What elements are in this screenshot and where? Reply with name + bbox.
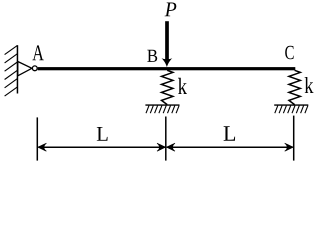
ground line under spring C xyxy=(274,104,308,106)
ground line under spring B xyxy=(145,104,179,106)
dimension line A-B xyxy=(39,146,165,148)
wall hatching at A xyxy=(5,45,18,96)
dimension arrowhead at C xyxy=(285,143,294,151)
node label C xyxy=(285,46,293,59)
ground hatching under spring B xyxy=(146,106,179,114)
dimension line B-C xyxy=(167,146,293,148)
force label P xyxy=(165,2,177,16)
force arrow shaft xyxy=(165,21,169,60)
dimension extension line at C xyxy=(293,116,295,161)
dimension label L (right span) xyxy=(224,126,236,140)
beam A-B-C xyxy=(38,67,296,70)
spring stiffness label k at C xyxy=(305,77,314,93)
dimension label L (left span) xyxy=(97,127,108,141)
dimension arrowhead right at B (second span) xyxy=(166,143,175,151)
node label B xyxy=(147,50,157,62)
dimension extension line at A xyxy=(36,117,38,160)
force arrowhead xyxy=(162,58,173,67)
dimension arrowhead right at B xyxy=(157,143,166,151)
wall line at A xyxy=(16,45,18,93)
spring stiffness label k at B xyxy=(178,78,187,94)
spring at B xyxy=(162,70,173,104)
node label A xyxy=(32,45,43,60)
ground hatching under spring C xyxy=(275,106,308,114)
pin support triangle at A xyxy=(18,62,32,76)
spring at C xyxy=(289,70,300,104)
pin circle at A xyxy=(32,66,37,71)
dimension extension line at B xyxy=(165,117,167,161)
dimension arrowhead left at A xyxy=(38,143,47,151)
